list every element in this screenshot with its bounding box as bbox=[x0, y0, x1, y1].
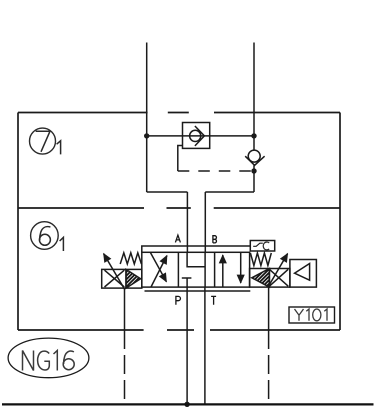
valve divider 3 bbox=[214, 252, 216, 287]
wire P line bbox=[186, 287, 188, 404]
label Y101 box bbox=[289, 307, 335, 323]
node P junction dot bbox=[184, 402, 189, 407]
label solenoid C bbox=[263, 242, 269, 250]
label subscript 1 of 6 bbox=[60, 237, 64, 251]
spring right bbox=[250, 253, 271, 266]
valve centre P blocked bar bbox=[182, 277, 192, 279]
wire check-valve horizontal bbox=[147, 135, 254, 137]
label port P bbox=[176, 296, 181, 304]
pilot box with hollow triangle bbox=[290, 260, 317, 288]
wire B port drop bbox=[204, 192, 206, 252]
solenoid b triangle bbox=[252, 269, 270, 288]
label port B bbox=[213, 236, 217, 243]
wire below relief valve bbox=[253, 165, 255, 192]
relief check valve circle bbox=[248, 150, 260, 162]
wire bypass dashed to node bbox=[178, 170, 252, 172]
solenoid a triangle bbox=[126, 269, 141, 288]
solenoid a box bbox=[102, 269, 142, 288]
solenoid a cross bbox=[105, 270, 125, 287]
wire A port drop bbox=[186, 192, 188, 252]
check valve U1 circle bbox=[190, 130, 201, 141]
solenoid b divider bbox=[268, 269, 270, 288]
check valve U1 chevron bbox=[195, 126, 205, 146]
wire supply vertical right upper bbox=[253, 43, 255, 151]
solenoid b box bbox=[250, 269, 290, 288]
valve bottom interface line bbox=[145, 290, 251, 292]
wire solenoid b cable dashed bbox=[268, 330, 270, 404]
valve right position down arrow bbox=[240, 252, 242, 283]
wire T line bbox=[204, 287, 206, 404]
valve top interface line bbox=[142, 246, 251, 252]
solenoid b proportional arrow bbox=[268, 254, 287, 287]
valve centre P stub bbox=[186, 278, 188, 287]
wire solenoid b lead bbox=[268, 287, 270, 330]
node junction dot B-line bottom bbox=[251, 168, 256, 173]
solenoid a divider bbox=[125, 269, 127, 288]
wire jog B at y=192 bbox=[205, 191, 254, 193]
wire solenoid a cable dashed bbox=[124, 330, 126, 404]
valve V1 outer body bbox=[142, 252, 250, 287]
check valve U1 box bbox=[183, 123, 210, 149]
wire solenoid a lead bbox=[124, 288, 126, 330]
manifold block 7 outline bbox=[18, 113, 340, 209]
label NG16 ellipse bbox=[8, 338, 89, 378]
valve centre A stub bbox=[187, 252, 205, 266]
solenoid b cross bbox=[269, 269, 288, 286]
wire supply vertical left (to check valve line) bbox=[146, 43, 148, 193]
ramp symbol in C box bbox=[253, 243, 263, 246]
label subscript 1 of 7 bbox=[57, 141, 61, 155]
relief check valve seat V bbox=[245, 156, 264, 165]
solenoid C designation box bbox=[250, 241, 274, 252]
wire jog A at y=192 bbox=[147, 191, 188, 193]
node junction dot B-line top bbox=[251, 133, 256, 138]
label port T bbox=[211, 296, 216, 304]
node junction dot A-line bbox=[144, 133, 149, 138]
solenoid a proportional arrow bbox=[104, 254, 125, 290]
manifold block 6 outline bbox=[18, 208, 340, 330]
label circled 6 bbox=[31, 222, 59, 250]
label port A bbox=[175, 235, 180, 242]
label circled 7 bbox=[30, 128, 56, 154]
baseline bottom busbar bbox=[2, 403, 374, 405]
valve left position crossed arrow 2 bbox=[151, 253, 167, 282]
pilot hollow triangle bbox=[295, 264, 310, 281]
valve divider 2 bbox=[204, 252, 206, 287]
valve left position crossed arrow 1 bbox=[151, 256, 167, 287]
wire bypass stub from check box bbox=[178, 146, 183, 172]
spring left bbox=[120, 253, 141, 264]
valve right position up arrow bbox=[222, 255, 224, 287]
valve divider 1 bbox=[177, 252, 179, 287]
